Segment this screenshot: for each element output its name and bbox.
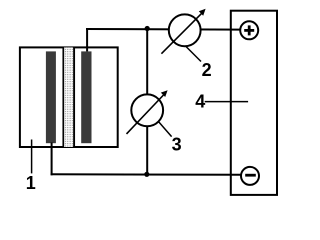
svg-text:2: 2: [202, 60, 212, 80]
meter 3 (circle body): [131, 94, 163, 126]
svg-text:1: 1: [26, 173, 36, 193]
meter 2 (circle body): [169, 14, 201, 46]
meter 2 arrowhead: [199, 9, 206, 16]
leader line to label 2: [186, 47, 201, 62]
svg-text:4: 4: [195, 92, 205, 112]
wire: top rail: [86, 28, 241, 31]
electrolysis cell vessel 1: [20, 47, 118, 147]
power supply box 4: [231, 11, 277, 195]
wire: left electrode drop to bottom rail: [51, 143, 53, 176]
wire: bottom rail: [51, 173, 242, 176]
junction node (top): [145, 26, 150, 31]
left electrode plate: [46, 51, 56, 143]
leader line to label 3: [158, 121, 171, 136]
junction node (bottom): [144, 172, 149, 177]
right electrode plate: [81, 51, 91, 143]
meter 3 arrowhead: [161, 90, 168, 97]
wire: right electrode riser to top rail: [86, 29, 88, 51]
positive terminal: [240, 21, 258, 39]
wire: shunt branch through meter 3: [146, 29, 148, 174]
leader line to label 4: [205, 101, 248, 103]
leader line to label 1: [31, 140, 33, 174]
meter 3 arrow line: [127, 95, 164, 134]
negative terminal: [241, 167, 259, 185]
svg-text:3: 3: [172, 134, 182, 154]
separator membrane (stippled): [63, 47, 74, 147]
meter 2 arrow line: [161, 13, 201, 53]
